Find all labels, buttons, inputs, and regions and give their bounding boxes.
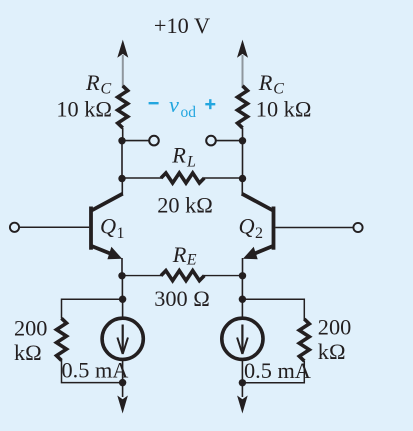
wire: right bottom node to arrow bbox=[241, 383, 243, 397]
svg-text:C: C bbox=[273, 80, 284, 97]
svg-text:0.5 mA: 0.5 mA bbox=[244, 358, 311, 383]
node dot RE left bbox=[118, 272, 125, 279]
transistor Q2 collector bbox=[242, 194, 273, 211]
wire: left node to output terminal bbox=[122, 140, 150, 142]
svg-text:10 kΩ: 10 kΩ bbox=[256, 97, 312, 122]
svg-text:Q: Q bbox=[239, 214, 255, 239]
svg-text:kΩ: kΩ bbox=[14, 340, 42, 365]
resistor RL (20 k) zigzag bbox=[161, 173, 204, 183]
wire: right collector node down bbox=[242, 141, 244, 179]
transistor Q1 emitter with arrow bbox=[92, 246, 114, 255]
node dot right bottom bbox=[239, 379, 246, 386]
svg-text:v: v bbox=[169, 92, 179, 117]
terminal circle Q1 base input bbox=[10, 223, 19, 232]
resistor 200k right zigzag bbox=[299, 319, 309, 361]
svg-text:10 kΩ: 10 kΩ bbox=[56, 97, 112, 122]
svg-text:R: R bbox=[171, 143, 186, 168]
resistor RC left (10 k) zigzag bbox=[118, 86, 128, 128]
node dot RE right bbox=[239, 272, 246, 279]
node dot RL left bbox=[118, 175, 125, 182]
wire: RC left lead to node bbox=[122, 128, 124, 141]
wire: left RE node down to bias node bbox=[121, 276, 123, 299]
svg-text:E: E bbox=[186, 252, 197, 269]
wire: right node to output terminal bbox=[216, 140, 243, 142]
svg-text:R: R bbox=[172, 242, 187, 267]
svg-text:300 Ω: 300 Ω bbox=[154, 286, 210, 311]
current source I2 circle bbox=[222, 318, 263, 359]
resistor 200k left zigzag bbox=[57, 318, 67, 360]
wire: current source I2 to bottom node bbox=[241, 360, 243, 383]
svg-text:2: 2 bbox=[255, 225, 263, 242]
node dot left bottom bbox=[119, 379, 126, 386]
wire: current source I1 to bottom node bbox=[122, 360, 124, 383]
wire: RL left lead bbox=[122, 177, 162, 179]
wire: 200k left bottom lead bbox=[62, 360, 123, 383]
wire: right RE node down to bias node bbox=[241, 276, 243, 299]
wire: left bias node to current source bbox=[122, 299, 124, 318]
wire: right bias node to current source bbox=[241, 299, 243, 318]
wire: RE right lead bbox=[204, 275, 243, 277]
wire: Q2 base lead bbox=[275, 227, 353, 229]
arrow down left (to negative supply) bbox=[117, 396, 128, 414]
terminal circle right output bbox=[206, 136, 216, 146]
terminal circle left output bbox=[149, 136, 159, 146]
svg-text:kΩ: kΩ bbox=[318, 339, 346, 364]
node dot left collector bbox=[118, 137, 125, 144]
svg-text:+10 V: +10 V bbox=[154, 13, 210, 38]
current source I1 arrow bbox=[122, 325, 124, 354]
wire: right bias node to 200k branch bbox=[242, 299, 304, 320]
node dot RL right bbox=[239, 175, 246, 182]
transistor Q1 base bar bbox=[89, 207, 93, 250]
wire: left collector node down bbox=[121, 141, 123, 179]
svg-text:200: 200 bbox=[14, 316, 47, 341]
terminal circle Q2 base input bbox=[353, 223, 362, 232]
wire: Q1 base lead bbox=[19, 226, 89, 228]
svg-text:od: od bbox=[181, 104, 197, 121]
transistor Q1 collector bbox=[92, 194, 123, 211]
wire: left RL node to Q1 collector bbox=[121, 179, 123, 195]
label - vod + (cyan) bbox=[149, 102, 159, 104]
resistor RC right (10 k) zigzag bbox=[238, 86, 248, 128]
svg-text:0.5 mA: 0.5 mA bbox=[62, 358, 129, 383]
wire: RE left lead bbox=[122, 275, 162, 277]
wire: RL right lead bbox=[204, 177, 243, 179]
supply arrow left (up) bbox=[117, 40, 128, 58]
wire: left supply shaft (gray) bbox=[122, 55, 124, 87]
wire: right supply shaft (gray) bbox=[242, 55, 244, 87]
wire: RC right lead to node bbox=[242, 128, 244, 141]
svg-text:C: C bbox=[101, 80, 112, 97]
arrow down right (to negative supply) bbox=[237, 396, 248, 414]
wire: left bottom node to arrow bbox=[122, 383, 124, 397]
transistor Q2 base bar bbox=[272, 207, 276, 250]
wire: Q1 emitter to RE node bbox=[121, 258, 123, 276]
wire: left bias node to 200k branch bbox=[62, 299, 123, 318]
node dot left bias bbox=[119, 296, 126, 303]
current source I1 circle bbox=[102, 318, 143, 359]
transistor Q2 emitter with arrow bbox=[252, 246, 273, 255]
svg-text:R: R bbox=[85, 70, 100, 95]
svg-text:L: L bbox=[186, 153, 196, 170]
supply arrow right (up) bbox=[237, 40, 248, 58]
wire: Q2 emitter to RE node bbox=[242, 258, 244, 276]
wire: 200k right bottom lead bbox=[242, 361, 304, 383]
wire: right RL node to Q2 collector bbox=[241, 179, 243, 195]
svg-text:1: 1 bbox=[117, 225, 125, 242]
svg-text:Q: Q bbox=[100, 214, 116, 239]
svg-text:20 kΩ: 20 kΩ bbox=[157, 192, 213, 217]
current source I2 arrow bbox=[241, 325, 243, 354]
svg-text:200: 200 bbox=[318, 315, 351, 340]
node dot right bias bbox=[239, 296, 246, 303]
node dot right collector bbox=[239, 137, 246, 144]
svg-text:R: R bbox=[258, 70, 273, 95]
resistor RE (300 ohm) zigzag bbox=[161, 271, 204, 281]
